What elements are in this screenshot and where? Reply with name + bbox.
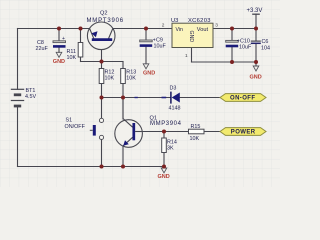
node R14 tap — [162, 130, 166, 134]
wire C10 bottom stub — [231, 47, 233, 62]
node C10 ground bus junction — [230, 60, 234, 64]
svg-text:10K: 10K — [126, 75, 136, 81]
svg-text:XC6203: XC6203 — [188, 18, 211, 24]
svg-text:3K: 3K — [167, 145, 174, 151]
resistor R14 3K — [162, 138, 177, 153]
node S1 bottom rail junction — [100, 165, 104, 169]
wire C6 top stub — [255, 29, 257, 41]
wire C6 ground drop — [255, 62, 257, 66]
svg-text:2: 2 — [162, 23, 165, 29]
svg-text:POWER: POWER — [231, 130, 256, 136]
node C6 ground bus junction — [254, 60, 258, 64]
resistor R12 10K — [99, 69, 114, 84]
voltage regulator U3 XC6203 — [162, 18, 219, 59]
ground symbol below C6 — [250, 66, 262, 81]
node C9 tap — [144, 27, 148, 31]
wire C8 top stub — [58, 29, 60, 41]
wire battery bottom lead — [17, 106, 19, 167]
svg-text:GND: GND — [143, 71, 155, 77]
node Q2 base junction — [100, 60, 104, 64]
wire D3 anode to ON-OFF flag — [180, 97, 220, 99]
transistor Q2 MMPT3906 (PNP) — [87, 11, 124, 50]
svg-text:+3.3V: +3.3V — [247, 8, 263, 14]
wire R14 bottom lead — [163, 153, 165, 167]
wire R13 bottom lead to Q1 collector — [122, 84, 124, 120]
wire Q1 emitter lead to bottom rail — [122, 146, 124, 167]
wire C10 top stub — [231, 29, 233, 41]
wire battery top lead — [17, 29, 19, 90]
wire R14 top lead — [163, 132, 165, 139]
svg-text:Vout: Vout — [197, 27, 209, 33]
svg-text:ON/OFF: ON/OFF — [65, 124, 86, 130]
wire C6 bottom stub — [255, 44, 257, 62]
ground symbol below C9 — [143, 64, 155, 77]
wire U3 ground bus — [192, 61, 257, 63]
svg-text:MMP3904: MMP3904 — [150, 121, 182, 127]
wire bottom rail (battery-) — [18, 166, 165, 168]
node C8 tap — [57, 27, 61, 31]
svg-text:D3: D3 — [170, 86, 177, 92]
svg-text:10K: 10K — [190, 136, 200, 142]
svg-text:GND: GND — [53, 59, 65, 65]
wire R15 to POWER flag — [204, 131, 220, 133]
ground symbol below C8 — [53, 52, 65, 65]
node R14 ground junction — [162, 165, 166, 169]
capacitor C9 10uF — [140, 38, 167, 50]
artifact dash on control line — [135, 97, 138, 99]
switch S1 ON/OFF (push button) — [65, 118, 104, 140]
power port +3.3V — [247, 8, 263, 14]
svg-text:MMPT3906: MMPT3906 — [87, 18, 124, 24]
svg-text:104: 104 — [261, 46, 270, 52]
wire R12 bottom lead — [101, 84, 103, 98]
node R11 tap — [79, 27, 83, 31]
svg-text:22uF: 22uF — [36, 46, 49, 52]
capacitor C10 10uF — [226, 39, 252, 51]
svg-text:10uF: 10uF — [239, 44, 252, 50]
net label flag ON-OFF — [220, 94, 266, 102]
svg-text:1: 1 — [185, 53, 188, 59]
svg-text:+: + — [62, 36, 65, 42]
wire S1 top lead — [101, 98, 103, 119]
svg-text:3: 3 — [215, 23, 218, 29]
wire C9 bottom stub to ground — [145, 47, 147, 64]
svg-text:ON-OFF: ON-OFF — [230, 96, 255, 102]
battery BT1 4.5V — [11, 88, 37, 106]
node C10 tap — [230, 27, 234, 31]
svg-text:4.5V: 4.5V — [25, 94, 36, 100]
svg-text:GND: GND — [158, 174, 170, 180]
wire Q1 base line to R15 — [135, 131, 188, 133]
wire R11 top stub — [80, 29, 82, 43]
ground symbol below R14 — [158, 168, 170, 180]
wire R11 bottom stub — [80, 57, 82, 62]
wire U3 GND pin lead — [191, 48, 193, 63]
node Q1 emitter rail junction — [121, 165, 125, 169]
capacitor C8 22uF — [36, 36, 66, 52]
svg-text:GND: GND — [188, 31, 194, 43]
svg-text:Q2: Q2 — [100, 11, 107, 17]
capacitor C6 104 — [251, 39, 270, 52]
svg-text:U3: U3 — [171, 18, 178, 24]
net label flag POWER — [220, 128, 266, 136]
wire R13 top lead — [122, 62, 124, 69]
wire S1 bottom lead — [101, 140, 103, 167]
svg-text:C6: C6 — [262, 39, 269, 45]
diode D3 4148 — [162, 86, 181, 112]
svg-text:GND: GND — [250, 75, 262, 81]
svg-text:S1: S1 — [66, 118, 73, 124]
svg-text:10uF: 10uF — [154, 44, 167, 50]
wire +3.3V power stem — [255, 14, 257, 28]
resistor R15 10K (horizontal) — [189, 124, 205, 142]
svg-text:10K: 10K — [105, 75, 115, 81]
node S1/R12 junction — [100, 96, 104, 100]
resistor R13 10K — [121, 69, 137, 84]
wire top rail from battery+ to C6 tap — [18, 28, 257, 30]
svg-text:R15: R15 — [191, 124, 201, 130]
svg-text:4148: 4148 — [169, 106, 181, 112]
wire base link R11 to R13 — [81, 61, 124, 63]
wire control line S1 to D3 — [102, 97, 171, 99]
wire C8 bottom stub to ground — [58, 47, 60, 52]
transistor Q1 MMP3904 (NPN) — [115, 98, 182, 148]
wire Q2 base lead — [101, 41, 103, 62]
svg-text:Vin: Vin — [176, 27, 184, 33]
node C6 / +3.3V tap — [254, 27, 258, 31]
resistor R11 10K — [67, 43, 83, 62]
wire R12 top lead — [101, 62, 103, 69]
node Q1 collector / control line junction — [121, 96, 125, 100]
wire C9 top stub — [145, 29, 147, 41]
svg-text:10K: 10K — [67, 55, 77, 61]
